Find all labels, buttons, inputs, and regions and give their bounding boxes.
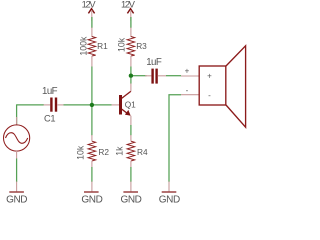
speaker SP1 body <box>199 66 226 105</box>
wire supply to R1 <box>91 17 93 28</box>
transistor Q1 <box>112 83 131 126</box>
wire source top to C1 <box>17 104 44 106</box>
svg-text:Q1: Q1 <box>125 99 136 109</box>
ground GND under speaker <box>159 182 180 206</box>
wire supply to R3 <box>130 17 132 28</box>
capacitor C1 <box>44 98 64 112</box>
wire R1 bottom through base node to R2 top <box>91 67 93 136</box>
svg-text:C1: C1 <box>44 114 55 124</box>
svg-text:1uF: 1uF <box>42 86 58 97</box>
ground GND under R4 <box>120 182 141 206</box>
svg-text:+: + <box>207 71 212 80</box>
resistor R3 <box>127 28 135 67</box>
wire source to ground <box>16 159 18 183</box>
resistor R1 <box>88 28 96 67</box>
wire collector node to Q1 collector <box>130 78 132 84</box>
svg-text:R2: R2 <box>98 147 109 157</box>
wire speaker minus to ground <box>169 95 181 182</box>
svg-text:+: + <box>185 67 190 76</box>
svg-text:-: - <box>208 91 211 100</box>
speaker SP1 horn <box>226 46 246 127</box>
node collector junction <box>129 74 133 78</box>
node base junction <box>90 103 94 107</box>
svg-text:-: - <box>186 86 189 95</box>
svg-text:10k: 10k <box>117 37 127 52</box>
svg-text:12V: 12V <box>121 0 136 9</box>
supply +12V left arrow <box>88 9 94 21</box>
ground GND under R2 <box>81 182 102 206</box>
wire base node to Q1 base <box>92 104 112 106</box>
wire C1 to base node <box>64 104 92 106</box>
svg-text:R4: R4 <box>137 147 148 157</box>
svg-text:1uF: 1uF <box>146 57 162 68</box>
svg-text:GND: GND <box>81 195 102 204</box>
source AC signal generator <box>4 104 30 159</box>
svg-text:12V: 12V <box>82 0 97 9</box>
pin speaker minus <box>181 94 199 96</box>
wire Q1 emitter to R4 <box>130 125 132 136</box>
wire collector node to C2 <box>131 75 147 77</box>
svg-text:GND: GND <box>159 195 180 204</box>
resistor R2 <box>88 135 96 168</box>
resistor R4 <box>127 135 135 168</box>
svg-text:GND: GND <box>120 195 141 204</box>
ground GND under source <box>6 182 27 206</box>
svg-text:GND: GND <box>6 195 27 204</box>
svg-text:R1: R1 <box>97 41 108 51</box>
wire C2 to speaker plus pin <box>166 75 181 77</box>
pin speaker plus <box>181 75 199 77</box>
supply +12V right arrow <box>127 9 133 21</box>
svg-text:100k: 100k <box>79 36 89 56</box>
svg-text:10k: 10k <box>76 145 86 160</box>
capacitor C2 <box>145 69 166 84</box>
wire R3 bottom to collector node <box>130 67 132 76</box>
wire R4 to ground <box>130 167 132 182</box>
svg-text:R3: R3 <box>136 41 147 51</box>
svg-text:1k: 1k <box>115 146 125 156</box>
wire R2 to ground <box>91 167 93 182</box>
